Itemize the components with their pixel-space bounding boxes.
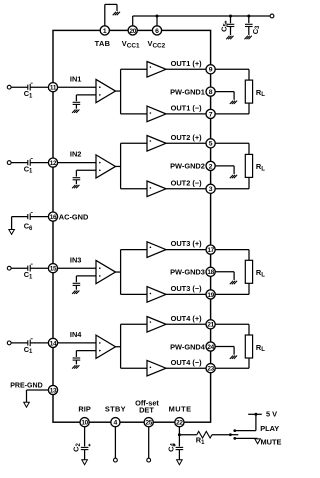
capacitor C5 <box>219 16 234 35</box>
capacitor C6 <box>12 213 49 232</box>
wire <box>58 162 96 164</box>
IC package outline U1 <box>53 30 211 422</box>
wire <box>30 267 48 269</box>
pin 25 (Off-set DET) <box>135 398 159 427</box>
svg-text:13: 13 <box>50 387 57 394</box>
svg-text:4: 4 <box>114 420 118 427</box>
wire IN3 input <box>11 267 28 269</box>
pin 20 (VCC1) <box>122 26 140 50</box>
svg-text:DET: DET <box>139 406 154 415</box>
wire OUT2 (-) <box>166 188 206 190</box>
svg-text:15: 15 <box>50 266 57 273</box>
wire OUT1 (-) <box>166 113 206 115</box>
pin 14 (IN4) <box>48 338 57 347</box>
svg-text:AC-GND: AC-GND <box>59 212 89 221</box>
svg-text:MUTE: MUTE <box>261 437 282 446</box>
svg-text:16: 16 <box>50 214 57 221</box>
resistor RL (ch4) <box>245 335 265 358</box>
op-amp power stage (+) ch2 <box>147 136 166 152</box>
op-amp power stage (−) ch1 <box>147 106 166 122</box>
pin 10 (RIP) <box>78 405 90 427</box>
wire PLAY contact to 5V <box>235 414 262 430</box>
op-amp input stage A4 <box>96 335 116 358</box>
svg-text:5 V: 5 V <box>266 410 277 419</box>
node VCC junction above pin 6 <box>156 15 159 18</box>
svg-text:RIP: RIP <box>78 405 90 414</box>
pin 7 (OUT1-) <box>206 109 215 118</box>
capacitor C2 <box>72 427 91 460</box>
wire PW-GND2 to ground <box>215 166 234 174</box>
terminal Off-set DET <box>147 458 151 462</box>
wire C6 to ground <box>11 217 13 230</box>
svg-text:7: 7 <box>209 111 213 118</box>
wire inverting input to AC ground <box>76 170 96 176</box>
wire inverting input to AC ground <box>76 276 96 282</box>
switch SW (PLAY/MUTE) <box>229 429 238 440</box>
svg-text:18: 18 <box>207 269 214 276</box>
svg-text:PW-GND1: PW-GND1 <box>170 87 205 96</box>
pin 8 (PW-GND1) <box>206 87 215 96</box>
svg-text:OUT3 (+): OUT3 (+) <box>171 239 203 248</box>
ground <box>72 110 79 113</box>
svg-text:9: 9 <box>209 67 213 74</box>
pin 18 (PW-GND3) <box>206 267 215 276</box>
wire splitter to power stages <box>116 250 148 295</box>
wire MUTE pin down <box>178 427 180 447</box>
op-amp power stage (+) ch1 <box>147 62 166 78</box>
resistor RL (ch3) <box>245 260 265 283</box>
wire <box>30 162 48 164</box>
op-amp input stage A3 <box>96 260 116 283</box>
node 5V junction <box>254 413 257 416</box>
wire PW-GND3 to ground <box>215 272 234 280</box>
svg-text:12: 12 <box>50 160 57 167</box>
wire IN4 input <box>11 342 28 344</box>
svg-text:MUTE: MUTE <box>169 405 192 414</box>
wire <box>30 342 48 344</box>
svg-text:OUT4 (−): OUT4 (−) <box>171 358 203 367</box>
pin 16 (AC-GND) <box>48 212 89 221</box>
svg-text:22: 22 <box>176 420 183 427</box>
op-amp input stage A2 <box>96 155 116 178</box>
svg-text:21: 21 <box>207 322 214 329</box>
wire inverting input to AC ground <box>76 351 96 357</box>
wire splitter to power stages <box>116 143 148 189</box>
node MUTE junction <box>178 433 181 436</box>
pin 24 (PW-GND4) <box>206 342 215 351</box>
pin 6 (VCC2) <box>148 26 166 50</box>
wire splitter to power stages <box>116 69 148 114</box>
terminal input IN2 <box>7 161 11 165</box>
op-amp power stage (+) ch3 <box>147 242 166 258</box>
ground <box>72 185 79 188</box>
svg-text:25: 25 <box>145 420 152 427</box>
ground <box>72 291 79 294</box>
svg-text:17: 17 <box>207 247 214 254</box>
pin 1 (TAB) <box>95 26 111 48</box>
wire inverting input to AC ground <box>76 95 96 101</box>
capacitor C3 <box>245 16 261 35</box>
pin 22 (MUTE) <box>169 405 192 427</box>
pin 11 (IN1) <box>48 83 57 92</box>
wire STBY stub <box>114 427 116 458</box>
wire OUT2 (+) <box>166 142 206 144</box>
ground below C5 <box>226 36 233 39</box>
svg-text:PLAY: PLAY <box>260 424 279 433</box>
pin 21 (OUT4+) <box>206 320 215 329</box>
ground below C6 <box>9 230 15 235</box>
svg-text:STBY: STBY <box>105 405 126 414</box>
capacitor internal (ch4 inverting input) <box>73 358 81 364</box>
ground <box>230 175 237 178</box>
capacitor internal (ch3 inverting input) <box>73 283 81 289</box>
ground <box>230 101 237 104</box>
capacitor internal (ch1 inverting input) <box>73 102 81 108</box>
pin 5 (OUT2+) <box>206 139 215 148</box>
pin 19 (OUT3-) <box>206 290 215 299</box>
wire OUT4 (+) <box>166 323 206 325</box>
wire MUTE to R1 <box>179 434 196 436</box>
wire VCC rail <box>133 16 270 26</box>
svg-text:OUT1 (−): OUT1 (−) <box>171 104 203 113</box>
svg-text:OUT4 (+): OUT4 (+) <box>171 314 203 323</box>
terminal input IN4 <box>7 341 11 345</box>
wire <box>58 267 96 269</box>
ground <box>230 281 237 284</box>
pin 2 (PW-GND2) <box>206 161 215 170</box>
wire PW-GND1 to ground <box>215 92 234 100</box>
svg-text:IN4: IN4 <box>70 330 82 339</box>
svg-text:8: 8 <box>209 89 213 96</box>
svg-text:3: 3 <box>209 186 213 193</box>
wire R1 to switch pole <box>212 434 230 436</box>
node VCC junction at C3 <box>247 15 250 18</box>
svg-text:24: 24 <box>207 344 214 351</box>
svg-text:10: 10 <box>81 420 88 427</box>
svg-text:OUT3 (−): OUT3 (−) <box>171 284 203 293</box>
svg-text:2: 2 <box>209 163 213 170</box>
svg-text:PW-GND2: PW-GND2 <box>170 162 205 171</box>
ground below PRE-GND <box>24 402 30 407</box>
op-amp power stage (+) ch4 <box>147 317 166 333</box>
capacitor C1 (IN1) <box>24 83 33 99</box>
svg-text:PW-GND4: PW-GND4 <box>170 342 206 351</box>
ground <box>230 356 237 359</box>
svg-text:19: 19 <box>207 292 214 299</box>
wire <box>58 86 96 88</box>
wire OUT3 (-) <box>166 293 206 295</box>
resistor RL (ch2) <box>245 154 265 177</box>
svg-text:IN3: IN3 <box>70 255 82 264</box>
capacitor internal (ch2 inverting input) <box>73 178 81 184</box>
svg-text:IN2: IN2 <box>70 150 82 159</box>
ground below C3 <box>245 36 252 39</box>
svg-text:OUT1 (+): OUT1 (+) <box>171 59 203 68</box>
op-amp power stage (−) ch2 <box>147 181 166 197</box>
wire load loop ch2 <box>215 143 249 189</box>
svg-text:20: 20 <box>129 28 136 35</box>
node VCC junction at C5 <box>229 15 232 18</box>
svg-text:5: 5 <box>209 141 213 148</box>
wire IN2 input <box>11 162 28 164</box>
wire IN1 input <box>11 86 28 88</box>
terminal STBY <box>114 458 118 462</box>
capacitor C1 (IN4) <box>24 339 33 355</box>
pin 17 (OUT3+) <box>206 245 215 254</box>
svg-text:6: 6 <box>155 28 159 35</box>
resistor R1 <box>196 431 212 445</box>
pin 23 (OUT4-) <box>206 364 215 373</box>
capacitor C1 (IN3) <box>24 264 33 280</box>
svg-text:IN1: IN1 <box>70 74 82 83</box>
wire PRE-GND to ground <box>27 390 49 402</box>
ground below C2 <box>82 460 88 465</box>
svg-text:23: 23 <box>207 366 214 373</box>
wire Off-set DET stub <box>148 427 150 458</box>
pin 4 (STBY) <box>105 405 126 427</box>
ground MUTE contact arrow <box>255 439 261 444</box>
svg-text:14: 14 <box>50 340 57 347</box>
wire OUT1 (+) <box>166 68 206 70</box>
op-amp input stage A1 <box>96 79 116 102</box>
resistor RL (ch1) <box>245 80 265 103</box>
ground <box>72 365 79 368</box>
wire load loop ch3 <box>215 250 249 295</box>
wire <box>30 86 48 88</box>
terminal input IN3 <box>7 266 11 270</box>
terminal input IN1 <box>7 85 11 89</box>
wire MUTE contact <box>235 437 258 439</box>
svg-text:PRE-GND: PRE-GND <box>10 382 43 389</box>
wire splitter to power stages <box>116 324 148 368</box>
pin 12 (IN2) <box>48 158 57 167</box>
op-amp power stage (−) ch4 <box>147 360 166 376</box>
svg-text:11: 11 <box>50 85 57 92</box>
wire PW-GND4 to ground <box>215 347 234 355</box>
wire <box>58 342 96 344</box>
svg-text:PW-GND3: PW-GND3 <box>170 268 205 277</box>
svg-text:OUT2 (+): OUT2 (+) <box>171 133 203 142</box>
wire load loop ch4 <box>215 324 249 368</box>
ground below C4 <box>177 460 183 465</box>
capacitor C4 <box>166 443 183 460</box>
svg-text:1: 1 <box>103 28 107 35</box>
ground (TAB) <box>105 4 120 25</box>
pin 9 (OUT1+) <box>206 65 215 74</box>
pin 15 (IN3) <box>48 264 57 273</box>
wire OUT4 (-) <box>166 367 206 369</box>
pin 13 (PRE-GND) <box>10 382 57 394</box>
wire load loop ch1 <box>215 69 249 114</box>
svg-text:TAB: TAB <box>95 39 111 48</box>
svg-text:OUT2 (−): OUT2 (−) <box>171 178 203 187</box>
capacitor C1 (IN2) <box>24 159 33 175</box>
terminal VCC supply input <box>270 14 274 18</box>
pin 3 (OUT2-) <box>206 184 215 193</box>
wire OUT3 (+) <box>166 249 206 251</box>
op-amp power stage (−) ch3 <box>147 287 166 303</box>
